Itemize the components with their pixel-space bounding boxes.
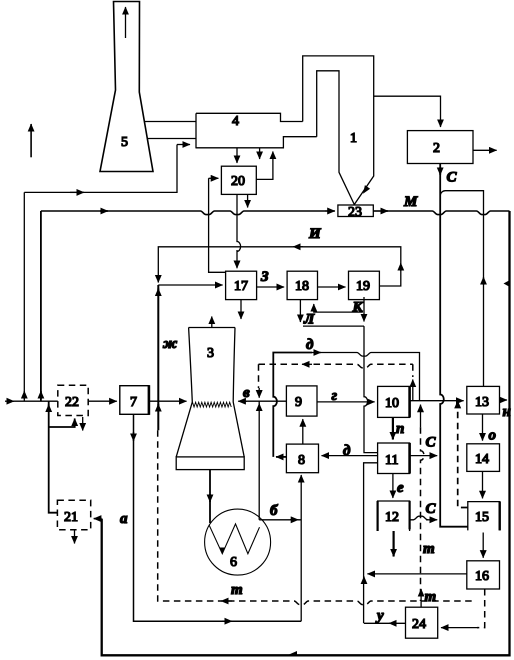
svg-text:К: К (352, 300, 364, 316)
wire: 21 to main line (49, 401, 75, 513)
wire: main feed line (5, 400, 117, 402)
wire: 20 up into heater (256, 152, 273, 180)
svg-text:3: 3 (207, 346, 214, 361)
chimney 5 (100, 2, 153, 172)
wire: stub arrow beside 20 (259, 148, 261, 159)
wire: 24 to y (364, 622, 406, 624)
mill 18 (287, 271, 317, 299)
wire: 15 to 16 (482, 533, 484, 558)
svg-text:в: в (243, 385, 250, 401)
cyclone 13 (467, 386, 500, 414)
arrow stub on right edge (504, 280, 511, 287)
svg-text:т: т (425, 589, 437, 605)
svg-text:5: 5 (121, 135, 128, 150)
arrow into hopper (363, 185, 370, 194)
box 15 (468, 502, 500, 531)
condenser 6 (205, 509, 271, 575)
svg-text:г: г (332, 388, 338, 404)
wire: g line 9 to 10 (317, 401, 375, 403)
mill 17 (226, 271, 257, 299)
svg-text:21: 21 (64, 510, 78, 525)
svg-text:т: т (423, 541, 435, 557)
wire: riser from b junction to water line (258, 401, 260, 520)
svg-text:ж: ж (163, 336, 177, 352)
svg-text:14: 14 (475, 452, 489, 467)
svg-text:С: С (447, 170, 458, 186)
wire: 17 bottom vent (240, 300, 242, 319)
wire: 13 out n (500, 399, 508, 401)
furnace 1 (303, 56, 374, 205)
svg-text:22: 22 (65, 395, 79, 410)
economizer 10 (378, 386, 410, 417)
wire: 20 down to 17 (237, 194, 241, 268)
svg-text:15: 15 (475, 510, 489, 525)
wire: 21 drain (74, 530, 76, 544)
wire: left riser air (23, 192, 25, 401)
wire: 10 to 13 (410, 400, 464, 402)
wire: 18 to 19 (318, 286, 346, 288)
wire: 11 to 8 d (322, 455, 378, 457)
svg-text:а: а (120, 511, 128, 527)
wire: a line from 7 (134, 414, 302, 621)
wire: 12 discharge (393, 531, 395, 557)
svg-text:н: н (503, 404, 511, 420)
arrow on bottom line (289, 651, 297, 655)
wire: d solid loop 8 to 13line (273, 353, 419, 457)
wire: raw fuel mill line M (41, 211, 335, 215)
wire: b line condenser to 8 riser (259, 519, 301, 521)
box 16 (467, 561, 500, 589)
pump 7 (120, 385, 149, 415)
svg-text:С: С (426, 435, 437, 451)
wire: 11 to c line (410, 455, 438, 457)
svg-text:д: д (343, 443, 351, 459)
wire: t dashed riser right (421, 405, 425, 601)
wire: zh riser (157, 285, 159, 430)
wire: t line dashed bottom (221, 601, 474, 605)
wire: water line into tower right side (238, 400, 286, 402)
wire: collector to 18 (314, 304, 363, 312)
wire: air inlet to heater (24, 145, 190, 193)
wire: into 17 (158, 284, 222, 286)
feeder 23 (338, 205, 373, 220)
wire: 10 to 11 p (392, 417, 394, 439)
heater 21 dashed (57, 500, 90, 530)
wire: 11 to 12 e (392, 474, 394, 499)
svg-text:о: о (489, 428, 497, 444)
wire: furnace to separator 2 (374, 96, 441, 127)
boiler water pump 9 (286, 386, 317, 416)
svg-text:17: 17 (234, 279, 248, 294)
wire: collector line (303, 325, 364, 327)
svg-text:18: 18 (295, 279, 309, 294)
cooling tower 3 (176, 317, 244, 470)
wire: riser a+b to 8 (300, 475, 302, 621)
wire: 20 stub to mill line (247, 194, 249, 207)
wire: 22 drain (82, 417, 84, 431)
svg-text:у: у (375, 608, 384, 624)
svg-text:п: п (396, 421, 404, 437)
svg-text:6: 6 (230, 555, 237, 570)
svg-text:2: 2 (433, 141, 440, 156)
wire: 24 up arrow (420, 589, 422, 607)
wire: recycle from cyclone 13 top (440, 191, 483, 387)
svg-text:13: 13 (475, 395, 489, 410)
svg-text:е: е (397, 480, 404, 496)
svg-text:20: 20 (231, 174, 245, 189)
svg-text:1: 1 (350, 131, 357, 146)
wire: heater to 20 (236, 148, 238, 163)
svg-text:7: 7 (130, 395, 137, 410)
svg-text:С: С (426, 501, 437, 517)
wire: d dashed return (259, 364, 413, 400)
svg-text:23: 23 (348, 205, 362, 220)
svg-text:8: 8 (298, 453, 305, 468)
heater 8 (286, 444, 318, 473)
wire: dust line c from separator down to 15 (440, 164, 468, 527)
svg-text:Л: Л (303, 312, 315, 328)
wire: flue duct chimney to air heater (144, 122, 196, 139)
wire: 19 up and line i (158, 247, 400, 286)
wire: riser into 20 left (209, 178, 226, 272)
wire: 7 to tower (149, 400, 187, 402)
wire: dashed recycle 15 to 13 line (458, 401, 468, 508)
wire: 13 to 14 o (482, 414, 484, 441)
wire: 12 to c line (410, 516, 428, 520)
wire: 17 to 18 z (257, 286, 285, 288)
heater 22 dashed (58, 385, 88, 415)
wire: left riser fuel (40, 211, 42, 401)
evaporator 11 (378, 443, 410, 474)
svg-text:И: И (308, 226, 322, 242)
wire: 19 bottom k (363, 297, 365, 322)
svg-text:16: 16 (475, 569, 489, 584)
box 24 (406, 607, 438, 638)
svg-text:24: 24 (412, 617, 426, 632)
wire: 18 bottom l (299, 300, 301, 322)
wire: 16 to k riser (367, 573, 466, 575)
svg-text:4: 4 (232, 114, 239, 129)
svg-text:М: М (403, 194, 418, 210)
wire: tower downcomer to condenser (209, 470, 211, 523)
svg-text:19: 19 (356, 279, 370, 294)
wire: mill line M right (94, 211, 510, 655)
wire: k down to bottom junction (364, 326, 378, 623)
wire: 14 to 15 (482, 471, 484, 498)
arrow exhaust air (30, 124, 32, 157)
svg-text:10: 10 (385, 396, 399, 411)
air heater 4 duct (196, 113, 317, 148)
svg-text:9: 9 (295, 395, 302, 410)
wire: separator output right (473, 149, 497, 151)
svg-text:З: З (260, 269, 269, 285)
svg-text:б: б (270, 503, 278, 519)
svg-text:12: 12 (385, 510, 399, 525)
svg-text:д: д (306, 337, 314, 353)
mill fan 20 (221, 166, 256, 194)
separator 2 (407, 131, 473, 164)
svg-text:т: т (231, 582, 243, 598)
svg-text:11: 11 (385, 453, 398, 468)
wire: 8 to 9 (302, 419, 304, 444)
mill 19 (349, 271, 380, 299)
wire: dashed t riser left (158, 430, 222, 601)
separator 12 (378, 501, 410, 531)
wire: 16 dashed to 24 (477, 589, 485, 628)
box 14 (467, 444, 500, 472)
